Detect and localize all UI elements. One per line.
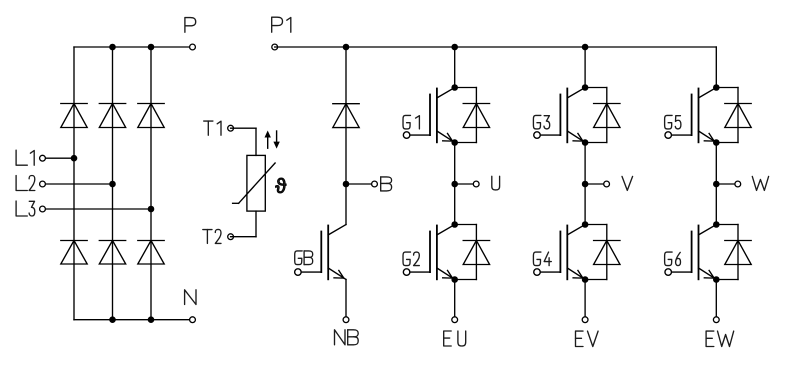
svg-text:ϑ: ϑ	[275, 176, 286, 198]
